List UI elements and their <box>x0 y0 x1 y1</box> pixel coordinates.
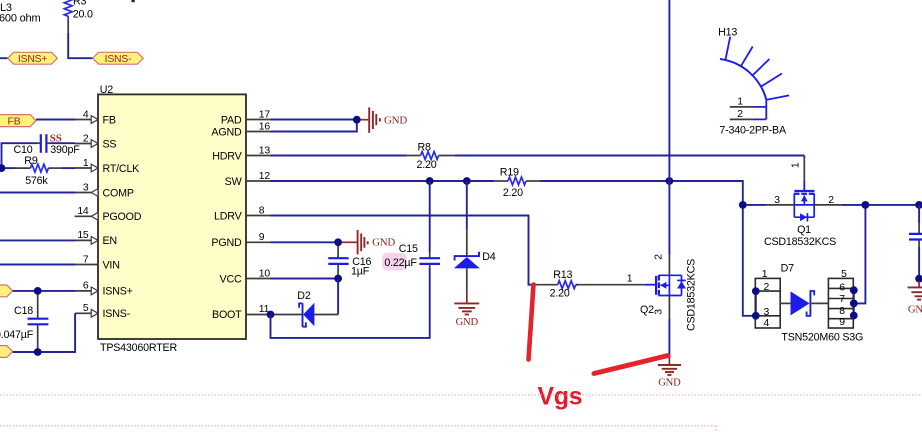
svg-text:10: 10 <box>259 268 271 279</box>
svg-text:VCC: VCC <box>220 273 242 285</box>
svg-text:D2: D2 <box>297 290 311 302</box>
svg-text:ISNS-: ISNS- <box>105 54 132 65</box>
svg-text:6: 6 <box>839 283 845 294</box>
svg-text:1: 1 <box>83 158 89 169</box>
svg-text:7: 7 <box>83 254 89 265</box>
svg-text:2: 2 <box>83 133 89 144</box>
svg-text:GND: GND <box>384 114 407 126</box>
svg-text:AGND: AGND <box>211 126 242 138</box>
svg-text:D7: D7 <box>781 263 795 275</box>
svg-text:H13: H13 <box>718 26 737 38</box>
svg-text:R8: R8 <box>418 141 432 153</box>
svg-text:SW: SW <box>225 176 243 188</box>
svg-text:PGND: PGND <box>211 237 242 249</box>
svg-text:1: 1 <box>627 273 633 284</box>
svg-text:BOOT: BOOT <box>212 309 242 321</box>
svg-text:3: 3 <box>774 195 780 206</box>
svg-text:ISNS-: ISNS- <box>103 308 131 320</box>
svg-text:2: 2 <box>654 254 665 260</box>
svg-text:VIN: VIN <box>103 259 120 271</box>
svg-text:CSD18532KCS: CSD18532KCS <box>686 259 698 331</box>
svg-text:13: 13 <box>259 145 271 156</box>
svg-text:GND: GND <box>456 317 479 328</box>
svg-text:ISNS+: ISNS+ <box>18 54 47 65</box>
svg-text:1µF: 1µF <box>351 266 370 278</box>
svg-text:15: 15 <box>77 230 89 241</box>
svg-text:3: 3 <box>654 309 665 315</box>
svg-text:Q2: Q2 <box>640 304 654 316</box>
svg-text:7-340-2PP-BA: 7-340-2PP-BA <box>719 125 787 137</box>
svg-text:390pF: 390pF <box>50 144 80 156</box>
svg-text:17: 17 <box>259 109 271 120</box>
svg-text:2: 2 <box>828 195 834 206</box>
svg-text:14: 14 <box>77 206 89 217</box>
svg-text:GND: GND <box>908 305 922 316</box>
svg-text:FB: FB <box>8 116 21 127</box>
svg-text:4: 4 <box>764 318 770 329</box>
svg-text:C18: C18 <box>14 305 33 317</box>
svg-text:2.20: 2.20 <box>503 187 523 199</box>
svg-text:600 ohm: 600 ohm <box>0 13 40 25</box>
svg-text:1: 1 <box>737 96 743 107</box>
svg-text:COMP: COMP <box>103 187 134 199</box>
svg-text:6: 6 <box>83 281 89 292</box>
svg-text:9: 9 <box>259 232 265 243</box>
svg-text:Q1: Q1 <box>797 224 811 236</box>
svg-text:TPS43060RTER: TPS43060RTER <box>100 342 177 354</box>
svg-text:D4: D4 <box>482 251 496 263</box>
svg-text:Vgs: Vgs <box>538 383 583 410</box>
svg-text:1: 1 <box>790 162 801 168</box>
svg-text:PAD: PAD <box>221 114 242 126</box>
svg-text:PGOOD: PGOOD <box>103 211 142 223</box>
svg-text:TSN520M60 S3G: TSN520M60 S3G <box>781 332 863 344</box>
svg-text:R19: R19 <box>500 167 519 179</box>
svg-text:GND: GND <box>372 237 395 249</box>
svg-text:EN: EN <box>103 235 117 247</box>
svg-text:20.0: 20.0 <box>73 8 93 20</box>
svg-text:5: 5 <box>83 303 89 314</box>
svg-text:R9: R9 <box>24 155 38 167</box>
svg-text:5: 5 <box>841 269 847 280</box>
svg-text:R3: R3 <box>73 0 87 8</box>
svg-text:CSD18532KCS: CSD18532KCS <box>764 236 836 248</box>
svg-text:LDRV: LDRV <box>214 210 243 222</box>
svg-text:9: 9 <box>839 317 845 328</box>
svg-text:576k: 576k <box>25 175 48 187</box>
svg-text:ISNS+: ISNS+ <box>103 286 133 298</box>
svg-text:16: 16 <box>259 121 271 132</box>
svg-text:0.22µF: 0.22µF <box>384 257 417 269</box>
svg-text:SS: SS <box>103 138 117 150</box>
svg-text:2: 2 <box>764 282 770 293</box>
svg-text:FB: FB <box>103 114 116 126</box>
svg-text:2: 2 <box>737 109 743 120</box>
svg-text:2.20: 2.20 <box>417 159 437 171</box>
svg-text:SS: SS <box>50 133 62 145</box>
svg-text:2.20: 2.20 <box>550 288 570 300</box>
svg-text:8: 8 <box>839 306 845 317</box>
svg-text:7: 7 <box>839 294 845 305</box>
svg-text:RT/CLK: RT/CLK <box>103 163 141 175</box>
svg-text:4: 4 <box>83 109 89 120</box>
svg-text:8: 8 <box>259 205 265 216</box>
svg-text:GND: GND <box>658 377 681 388</box>
svg-text:U2: U2 <box>100 84 114 96</box>
svg-text:3: 3 <box>83 182 89 193</box>
svg-text:0.047µF: 0.047µF <box>0 329 34 341</box>
svg-text:R13: R13 <box>553 269 572 281</box>
svg-text:12: 12 <box>259 171 271 182</box>
svg-text:HDRV: HDRV <box>212 150 242 162</box>
svg-text:1: 1 <box>762 269 768 280</box>
svg-text:3: 3 <box>764 307 770 318</box>
